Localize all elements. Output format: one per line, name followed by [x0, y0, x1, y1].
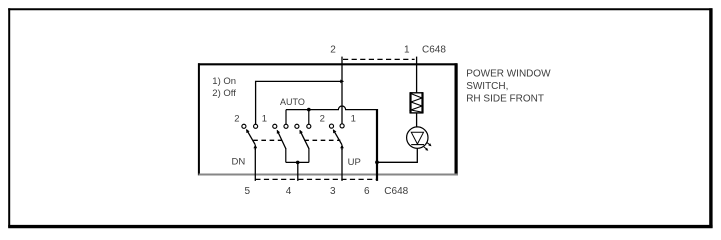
- terminal circle UP-1: [340, 124, 344, 128]
- UP switch blade (wiper with arrow to terminal 2): [333, 130, 342, 150]
- switch assembly box (bottom edge, gray): [199, 174, 459, 176]
- resistor (illumination LED dropping resistor): [410, 92, 423, 113]
- wire: auto contact a bottom: [285, 148, 287, 162]
- wire: auto contact b bottom: [308, 148, 310, 162]
- switch assembly box (top edge): [198, 63, 457, 65]
- svg-text:2: 2: [234, 114, 239, 125]
- DN switch blade (wiper with arrow to terminal 2): [247, 130, 256, 150]
- mechanical link dashed line DN pair: [253, 139, 281, 141]
- LED indicator (illumination): [407, 127, 432, 151]
- wire: pin 6 vertical (thick) from AUTO bus corner to connector: [376, 109, 378, 181]
- terminal circle DN-2: [242, 124, 246, 128]
- wire stub: AUTO bus down to auto contact b terminal: [308, 110, 310, 124]
- component name text: [466, 68, 551, 104]
- switch assembly box (right edge): [455, 63, 458, 175]
- svg-text:UP: UP: [348, 157, 361, 168]
- connector C648 bottom dashed line: [255, 178, 377, 180]
- svg-text:1: 1: [262, 114, 267, 125]
- wire: LED bottom to pin-6 line: [378, 148, 417, 162]
- svg-text:POWER WINDOW: POWER WINDOW: [466, 68, 551, 79]
- wire: UP blade to pin 3: [341, 146, 343, 181]
- terminal circle DN-1: [254, 124, 258, 128]
- svg-text:1: 1: [404, 44, 410, 55]
- terminal circle AUTO-b right: [307, 124, 311, 128]
- switch assembly box (left edge): [198, 63, 200, 175]
- terminal circle AUTO-a left: [273, 124, 277, 128]
- svg-text:AUTO: AUTO: [280, 97, 305, 107]
- junction dot auto common: [296, 161, 300, 165]
- svg-text:SWITCH,: SWITCH,: [466, 81, 508, 92]
- svg-text:4: 4: [286, 186, 292, 197]
- wire stub: AUTO bus down to auto contact a terminal: [285, 110, 287, 124]
- svg-text:6: 6: [364, 186, 370, 197]
- terminal circle UP-2: [329, 124, 333, 128]
- svg-text:3: 3: [330, 186, 336, 197]
- svg-text:C648: C648: [384, 186, 408, 197]
- svg-text:C648: C648: [422, 45, 446, 56]
- svg-text:1) On: 1) On: [212, 76, 236, 87]
- junction dot at pin-6 line: [375, 160, 379, 164]
- wire: auto contacts common bus: [286, 161, 309, 163]
- mechanical link dashed line UP pair: [304, 139, 340, 141]
- wire: resistor to LED: [416, 114, 418, 128]
- svg-text:DN: DN: [232, 156, 246, 167]
- terminal circle AUTO-b left: [295, 124, 299, 128]
- wire: DN contact terminal 1 up and across to pin-2 wire (arrow): [256, 81, 344, 124]
- svg-text:2: 2: [320, 114, 325, 125]
- wire: pin 1 vertical to resistor: [416, 57, 418, 93]
- junction dot on AUTO bus: [307, 108, 311, 112]
- svg-text:1: 1: [351, 114, 356, 125]
- svg-text:2) Off: 2) Off: [212, 88, 236, 99]
- AUTO contact b blade: [300, 130, 309, 148]
- svg-text:5: 5: [245, 186, 251, 197]
- wire: auto common to pin 4: [297, 162, 299, 181]
- wire: AUTO bus with hop over pin-2 wire: [286, 106, 377, 110]
- connector C648 top dashed line: [343, 58, 415, 60]
- svg-text:2: 2: [330, 44, 336, 55]
- AUTO contact a blade: [277, 130, 286, 148]
- wire: DN blade to pin 5: [254, 146, 256, 181]
- terminal circle AUTO-a right: [284, 124, 288, 128]
- svg-text:RH SIDE FRONT: RH SIDE FRONT: [466, 94, 544, 105]
- wire: pin 2 vertical into switch (to terminal 1 of UP contact): [341, 57, 343, 124]
